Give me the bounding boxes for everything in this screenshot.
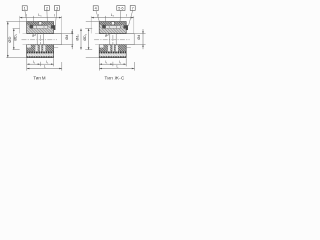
sleeve divider 2 [43, 26, 45, 29]
ext line D1 bottom right view [85, 49, 92, 51]
top ext right right view [133, 16, 135, 34]
dim D1 line right view [88, 29, 90, 50]
bolt slot left right view [108, 45, 110, 51]
shaft stub right top right view [126, 33, 134, 35]
shaft end face left [36, 34, 38, 45]
joint gap upper [39, 22, 42, 26]
shaft stub right top [54, 33, 62, 35]
svg-text:ØD₁: ØD₁ [83, 33, 87, 40]
upper outline right [99, 22, 126, 34]
callout box 4 [93, 6, 98, 11]
bore bottom line [27, 44, 54, 46]
leader 3 [55, 10, 57, 26]
upper inner hatch right [99, 29, 126, 34]
keyway notch lower [27, 45, 31, 48]
lower flange hatch right [99, 45, 126, 52]
lower flange hatch [27, 45, 54, 52]
shaft stub left bottom right view [95, 44, 99, 46]
top dim arrows [20, 17, 62, 19]
dim l2 right line right view [113, 63, 126, 65]
pin band flange hatch right right view [120, 25, 123, 28]
svg-text:Тип Ж-С: Тип Ж-С [104, 76, 125, 81]
flange rim lower texture right [99, 56, 126, 57]
flange rim light zone right [99, 53, 126, 56]
pin band flange hatch left right view [99, 25, 105, 28]
lower outline right [99, 45, 126, 58]
svg-text:1: 1 [24, 7, 26, 11]
pin nut right [123, 25, 128, 30]
flange rim light zone [27, 53, 54, 56]
shaft stub left bottom [23, 44, 27, 46]
top ext left right view [90, 16, 92, 34]
shaft stub left top [23, 33, 27, 35]
svg-text:Тип М: Тип М [33, 76, 46, 81]
pin band flange hatch left [27, 25, 33, 28]
bottom ext center [39, 62, 41, 66]
top ext left [19, 16, 21, 34]
dim l2 left line right view [99, 63, 113, 65]
sleeve divider 1 right [108, 26, 110, 29]
lower outline [27, 45, 54, 58]
ext line bore bottom right [62, 44, 74, 46]
ext line flange bottom right view [86, 57, 99, 59]
bottom ext hub right [61, 62, 63, 71]
joint gap cross line right [112, 24, 115, 26]
shaft end face right right view [115, 34, 117, 45]
bolt slot left [35, 45, 37, 51]
pin sleeve [33, 26, 48, 29]
svg-text:5 6: 5 6 [118, 7, 123, 11]
leader 1 [25, 11, 27, 22]
svg-text:L: L [116, 64, 118, 68]
flange rim dark band right [99, 52, 126, 54]
joint gap cross line [39, 24, 42, 26]
horizontal centerline right [94, 39, 130, 41]
pin band [27, 25, 54, 28]
top dim arrows right view [91, 17, 134, 19]
keyway notch lower right [99, 45, 103, 48]
dim L bottom line [27, 68, 62, 70]
dim d line far right [142, 29, 144, 49]
horizontal centerline [22, 39, 58, 41]
svg-text:Ød: Ød [137, 35, 141, 40]
upper outline [27, 22, 54, 34]
leader 7 [128, 10, 132, 26]
shaft stub right bottom [54, 44, 62, 46]
shaft end face left right view [109, 34, 111, 45]
bottom ext flange right right view [125, 58, 127, 66]
shaft end face right right view [133, 34, 135, 45]
bore top line right [99, 33, 126, 35]
pin band right [99, 25, 126, 28]
ext line flange top [6, 21, 26, 23]
dim D2 line [80, 29, 82, 50]
upper flange section hatch [27, 22, 54, 26]
leader 4 [96, 11, 99, 22]
shaft stub left top right view [95, 33, 99, 35]
lower joint gap edges right view [112, 45, 114, 52]
bottom ext center right view [112, 62, 114, 66]
sleeve divider 1 [36, 26, 38, 29]
leader 5-6 [119, 10, 122, 21]
pin head right [102, 25, 105, 29]
bore bottom line right [99, 44, 126, 46]
svg-text:Ød₂: Ød₂ [76, 34, 80, 41]
pin nut [51, 25, 56, 30]
dim D line [7, 22, 9, 58]
pin sleeve right [106, 26, 121, 29]
svg-text:ØD: ØD [7, 36, 12, 42]
svg-text:7: 7 [132, 7, 134, 11]
ext line D1 bottom left [13, 49, 20, 51]
vertical center mark [39, 35, 41, 48]
upper inner hatch [27, 29, 54, 34]
top ext right [61, 16, 63, 34]
shaft end face right [61, 34, 63, 45]
ext line D1 top left [13, 28, 20, 30]
bolt slot right [43, 45, 45, 51]
bottom ext hub right right view [133, 62, 135, 71]
flange rim dark band [27, 52, 54, 54]
shaft stub right bottom right view [126, 44, 134, 46]
keyway line right shaft [54, 47, 59, 49]
callout box 2 [44, 6, 49, 11]
svg-text:3: 3 [56, 7, 58, 11]
dim l1 right line [40, 63, 53, 65]
flange rim lower texture [27, 56, 54, 57]
svg-text:2: 2 [46, 7, 48, 11]
top ext mid [32, 16, 34, 22]
dim l1 left line [27, 63, 41, 65]
ext line flange top right view [86, 21, 99, 23]
key section upper right [106, 34, 108, 36]
shaft end face right [43, 34, 45, 45]
bolt slot right right view [116, 45, 118, 51]
dim D1 line [13, 29, 15, 50]
ext line bore bottom far right [134, 44, 145, 46]
svg-text:L: L [44, 64, 46, 68]
pin band flange hatch right [48, 25, 51, 28]
ext line bore top far right [134, 33, 145, 35]
bore top line [27, 33, 54, 35]
dim d line [71, 29, 73, 49]
bottom ext flange left right view [98, 58, 100, 70]
callout box 7 [130, 6, 135, 11]
svg-text:ØD₁: ØD₁ [14, 33, 18, 40]
dim L bottom line right view [99, 68, 134, 70]
key section upper [34, 34, 36, 36]
vertical center mark right [112, 35, 114, 48]
ext line flange bottom [6, 57, 26, 59]
svg-text:4: 4 [95, 7, 97, 11]
ext line D1 top right view [85, 28, 92, 30]
top ext mid right view [104, 16, 106, 22]
ext line bore top right [62, 33, 74, 35]
top dim line right view [91, 17, 134, 19]
callout box 1 [22, 6, 27, 11]
bottom ext flange right [53, 58, 55, 66]
sleeve divider 2 right [116, 26, 118, 29]
callout box 3 [54, 6, 59, 11]
upper flange section hatch right [99, 22, 126, 26]
svg-text:b: b [105, 34, 107, 38]
top dim line L1 [20, 17, 62, 19]
pin head [30, 25, 33, 29]
joint gap upper right [112, 22, 115, 26]
svg-text:L₂: L₂ [111, 13, 115, 17]
lower joint gap [40, 45, 42, 52]
lower joint gap edges [40, 45, 42, 52]
svg-text:b: b [32, 34, 34, 38]
callout box 5-6 [117, 6, 125, 11]
svg-text:Ød: Ød [65, 35, 69, 40]
lower joint gap right view [112, 45, 114, 52]
keyway line right shaft (right view) [126, 47, 131, 49]
leader 2 [46, 10, 48, 21]
bottom ext flange left [26, 58, 28, 70]
